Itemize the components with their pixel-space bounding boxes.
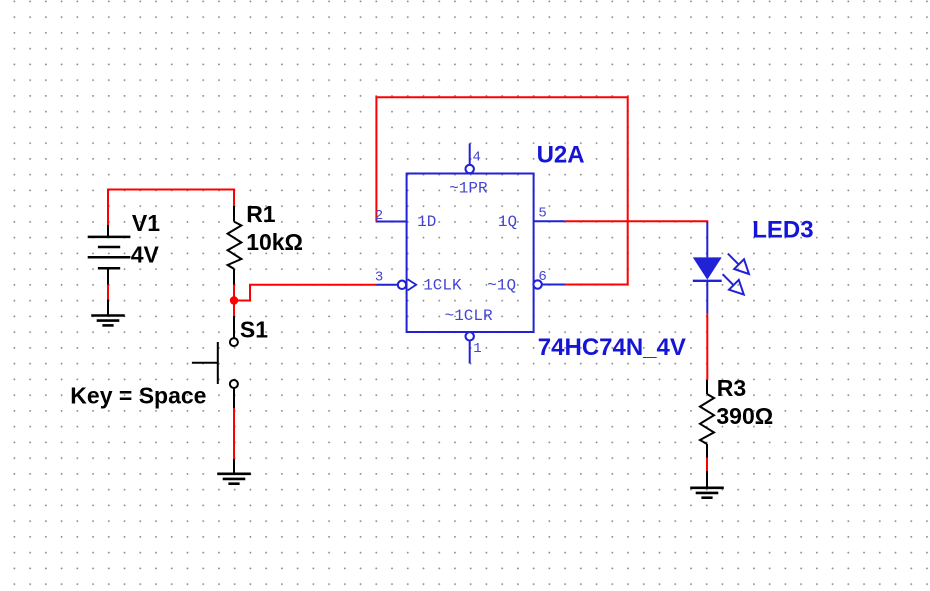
wire feedback net pin2 to pin6 [376,97,627,284]
pin 6 stub [542,284,565,286]
wire junction to U2A pin3 [234,285,376,301]
pin 3 bubble [398,281,406,289]
wire V1- to ground [107,285,109,300]
op-amp box U2A (D flip-flop 74HC74) [407,174,534,333]
svg-text:~1PR: ~1PR [449,179,488,197]
pin 6 bubble [533,280,541,288]
svg-text:4: 4 [473,149,481,165]
svg-text:1D: 1D [417,213,436,231]
pin 1 stub [469,340,471,363]
svg-text:LED3: LED3 [752,217,813,244]
svg-text:1: 1 [473,341,481,357]
LED arrow 1 [728,254,749,274]
svg-text:S1: S1 [240,317,268,343]
switch S1 [192,316,238,408]
wire pin5 to LED [565,221,708,223]
pin 2 stub [376,221,406,223]
pin 4 stub [469,143,471,165]
resistor R3 [700,380,714,458]
pin 4 bubble [466,165,474,173]
svg-text:~1Q: ~1Q [487,276,516,294]
svg-text:V1: V1 [132,210,160,236]
wire S1 bottom to ground [233,408,235,459]
svg-text:74HC74N_4V: 74HC74N_4V [538,334,686,361]
resistor R1 [228,206,242,285]
wire net V1+ to R1 top [108,190,234,226]
svg-text:2: 2 [375,208,383,224]
ground (R3) [690,471,724,498]
ground (V1) [91,299,125,325]
battery V1 [88,225,131,285]
svg-text:1Q: 1Q [498,213,517,231]
svg-text:5: 5 [538,206,546,222]
svg-text:4V: 4V [131,242,160,268]
pin 3 stub [376,284,398,286]
svg-text:390Ω: 390Ω [716,403,773,429]
svg-text:10kΩ: 10kΩ [246,229,303,255]
pin 5 stub [534,220,565,222]
svg-text:R1: R1 [246,201,276,227]
pin 1 bubble [466,332,474,340]
LED arrow 2 [723,274,744,294]
svg-text:R3: R3 [717,375,746,401]
pin 3 clock triangle [408,279,417,290]
LED3 diode [693,222,722,313]
svg-text:U2A: U2A [537,141,585,168]
svg-text:Key = Space: Key = Space [70,382,206,408]
svg-text:1CLK: 1CLK [423,276,462,294]
wire R1 bottom through junction to S1 [233,285,235,317]
ground (S1) [217,459,251,484]
svg-text:6: 6 [538,269,546,285]
wire R3 to ground [706,458,708,472]
svg-text:~1CLR: ~1CLR [445,307,493,325]
node junction dot [230,296,238,304]
wire LED to R3 [706,313,708,380]
svg-text:3: 3 [375,269,383,285]
